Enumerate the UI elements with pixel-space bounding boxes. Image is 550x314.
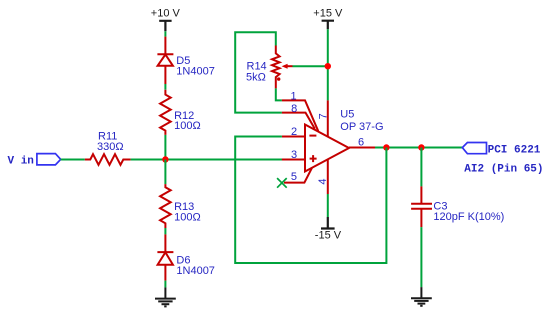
svg-text:120pF K(10%): 120pF K(10%) <box>433 211 504 223</box>
svg-text:8: 8 <box>291 103 297 115</box>
diode D5 <box>157 37 173 84</box>
wire V in to R11 <box>61 159 85 161</box>
potentiometer R14 arrow <box>282 64 288 69</box>
svg-text:1: 1 <box>291 91 297 103</box>
op-amp U5 <box>305 125 349 172</box>
wire C3 to ground <box>420 227 422 287</box>
svg-text:-15 V: -15 V <box>315 229 342 241</box>
svg-text:7: 7 <box>317 113 329 119</box>
svg-text:U5: U5 <box>340 109 354 121</box>
wire R14 bottom to pin1 <box>276 88 282 100</box>
svg-text:1N4007: 1N4007 <box>176 265 215 277</box>
wire R12 to input node <box>164 135 166 160</box>
diode D6 <box>157 234 173 280</box>
power -15V symbol <box>321 217 335 229</box>
wire R13 to D6 <box>164 228 166 234</box>
resistor R12 <box>160 90 171 135</box>
pin 8 lead <box>282 113 315 129</box>
svg-text:4: 4 <box>317 178 329 184</box>
svg-text:100Ω: 100Ω <box>174 120 201 132</box>
svg-text:330Ω: 330Ω <box>97 141 124 153</box>
svg-text:+15 V: +15 V <box>313 8 343 20</box>
svg-text:3: 3 <box>291 149 297 161</box>
pin 3 lead <box>282 159 305 161</box>
capacitor C3 <box>411 186 432 227</box>
wire input node down to R13 <box>164 160 166 185</box>
wire pin4 to -15V <box>327 194 329 217</box>
wire +15V rail down to pin7 <box>327 29 329 100</box>
pin 5 no-connect X <box>277 178 287 188</box>
power +10V symbol <box>159 21 171 32</box>
svg-text:2: 2 <box>291 126 297 138</box>
pin 4 lead <box>327 159 329 194</box>
svg-text:AI2 (Pin 65): AI2 (Pin 65) <box>464 164 543 176</box>
svg-text:OP 37-G: OP 37-G <box>340 121 383 133</box>
ground (left) <box>155 287 176 306</box>
wire output node down to C3 <box>420 148 422 187</box>
svg-text:+10 V: +10 V <box>151 8 181 20</box>
pin 5 lead <box>284 168 312 183</box>
wire +10V to D5 (green segment) <box>164 31 166 36</box>
resistor R13 <box>160 184 171 228</box>
wire D5 to R12 <box>164 84 166 90</box>
pin 2 lead <box>282 136 305 138</box>
connector V in <box>37 154 61 165</box>
node input junction <box>162 156 168 162</box>
node output junction <box>383 144 389 150</box>
wire R14 top loop to pin8 <box>235 32 282 112</box>
wire D6 to ground <box>164 281 166 288</box>
resistor R11 <box>85 154 131 165</box>
potentiometer R14 <box>272 46 293 89</box>
node wiper junction <box>325 63 331 69</box>
wire output to connector <box>375 147 462 149</box>
ground (right) <box>411 287 432 306</box>
potentiometer R14 dot <box>277 77 280 80</box>
svg-text:100Ω: 100Ω <box>174 211 201 223</box>
svg-text:5kΩ: 5kΩ <box>246 71 266 83</box>
connector PCI 6221 <box>462 143 486 154</box>
svg-text:PCI 6221: PCI 6221 <box>488 145 541 157</box>
svg-text:5: 5 <box>291 171 297 183</box>
svg-text:V in: V in <box>8 155 34 167</box>
pin 7 lead <box>327 100 329 136</box>
pin 1 lead <box>282 100 318 131</box>
power +15V symbol <box>322 21 334 30</box>
svg-text:1N4007: 1N4007 <box>176 66 215 78</box>
svg-text:6: 6 <box>358 137 364 149</box>
wire feedback loop to pin2 <box>235 137 386 264</box>
wire R14 wiper to +15 rail <box>293 65 328 67</box>
node C3 junction <box>418 144 424 150</box>
wire input node horizontal to pin3 <box>131 159 282 161</box>
pin 6 lead <box>349 147 375 149</box>
